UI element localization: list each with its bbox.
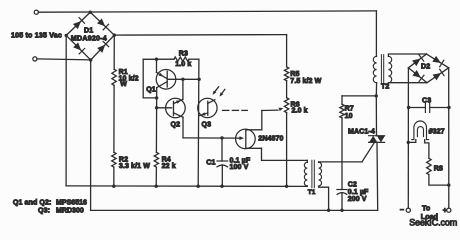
svg-text:MAC1-4: MAC1-4 xyxy=(348,129,375,136)
svg-text:0.1 µF: 0.1 µF xyxy=(348,189,369,196)
svg-text:MDA920-4: MDA920-4 xyxy=(71,35,107,42)
svg-text:T2: T2 xyxy=(381,83,389,90)
svg-text:MPS6516: MPS6516 xyxy=(56,199,87,206)
svg-text:10: 10 xyxy=(345,113,353,120)
svg-text:SeekIC.com: SeekIC.com xyxy=(409,217,457,227)
svg-text:2N4870: 2N4870 xyxy=(258,136,283,143)
svg-text:22 k: 22 k xyxy=(162,163,176,170)
svg-text:Q1 and Q2:: Q1 and Q2: xyxy=(13,199,52,206)
svg-text:MRD300: MRD300 xyxy=(56,207,84,214)
svg-text:T1: T1 xyxy=(308,189,316,196)
svg-text:R7: R7 xyxy=(345,106,354,113)
svg-text:200 V: 200 V xyxy=(348,196,367,203)
svg-text:#327: #327 xyxy=(429,128,445,135)
svg-text:Q1: Q1 xyxy=(146,87,156,94)
svg-text:100 V: 100 V xyxy=(230,164,249,171)
svg-text:R3: R3 xyxy=(179,50,188,57)
svg-text:105 to 135 Vac: 105 to 135 Vac xyxy=(11,32,62,39)
svg-text:W: W xyxy=(120,81,127,88)
svg-text:2.0 k: 2.0 k xyxy=(292,107,308,114)
svg-text:Q2: Q2 xyxy=(171,122,181,129)
svg-text:C3: C3 xyxy=(422,97,431,104)
svg-text:3.3 k/1 W: 3.3 k/1 W xyxy=(119,163,150,170)
svg-text:C1: C1 xyxy=(206,160,215,167)
svg-text:1.0 k: 1.0 k xyxy=(175,61,191,68)
svg-text:+: + xyxy=(443,208,447,215)
svg-text:Q3: Q3 xyxy=(202,122,212,129)
svg-text:7.5 k/2 W: 7.5 k/2 W xyxy=(290,78,321,85)
svg-text:−: − xyxy=(400,207,404,214)
svg-text:D2: D2 xyxy=(421,64,430,71)
svg-text:Q3:: Q3: xyxy=(38,207,50,214)
svg-text:R8: R8 xyxy=(434,166,443,173)
svg-text:C2: C2 xyxy=(348,181,357,188)
svg-text:To: To xyxy=(422,205,431,212)
svg-text:D1: D1 xyxy=(84,27,93,34)
